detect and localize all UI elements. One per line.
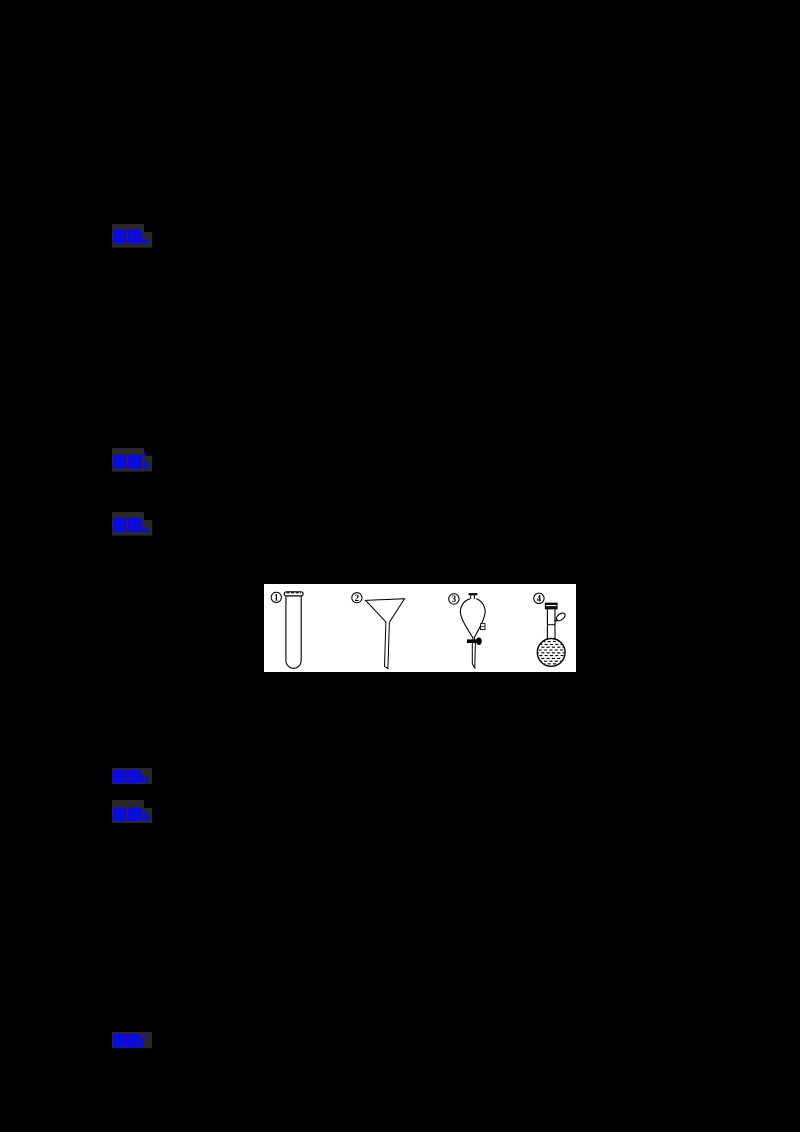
label circled 4 [534,593,544,603]
annotation A6 highlight box [112,1032,152,1048]
annotation A5 blue text [113,807,148,822]
label circled 3 [449,594,459,604]
round-bottom flask with side tube (apparatus 4) [536,603,567,666]
separating funnel (apparatus 3) [460,593,485,668]
annotation A1 highlight box [112,224,152,248]
annotation A6 blue text [113,1033,147,1048]
annotation A1 blue text [113,229,147,244]
svg-text:1: 1 [274,593,279,603]
svg-text:4: 4 [537,594,542,604]
annotation A3 blue text [113,517,147,532]
label circled 1 [271,592,281,602]
annotation A2 highlight box [112,448,152,472]
funnel (apparatus 2) [366,599,405,669]
test tube (apparatus 1) [284,592,303,668]
annotation A4 highlight box [112,768,152,784]
svg-text:3: 3 [452,594,457,604]
annotation A4 blue text [113,769,147,784]
svg-text:2: 2 [355,593,360,603]
white figure panel [264,584,576,672]
annotation A5 highlight box [112,800,152,823]
annotation A2 blue text [113,453,148,470]
annotation A3 highlight box [112,512,152,536]
label circled 2 [352,593,362,603]
